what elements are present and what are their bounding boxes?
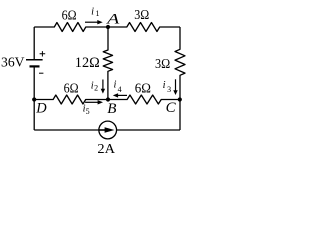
svg-text:i: i bbox=[114, 80, 117, 91]
svg-text:4: 4 bbox=[118, 85, 122, 94]
svg-text:5: 5 bbox=[86, 107, 90, 116]
svg-text:2: 2 bbox=[94, 84, 98, 93]
svg-text:2A: 2A bbox=[97, 142, 115, 157]
svg-text:6Ω: 6Ω bbox=[135, 82, 151, 97]
svg-text:A: A bbox=[106, 12, 121, 28]
svg-text:B: B bbox=[107, 101, 116, 117]
svg-text:6Ω: 6Ω bbox=[64, 81, 79, 96]
svg-text:i: i bbox=[163, 80, 166, 91]
svg-text:i: i bbox=[91, 6, 94, 17]
svg-text:36V: 36V bbox=[1, 55, 25, 70]
svg-text:6Ω: 6Ω bbox=[62, 9, 77, 24]
svg-text:3Ω: 3Ω bbox=[155, 57, 170, 72]
svg-text:3Ω: 3Ω bbox=[134, 8, 149, 23]
svg-text:C: C bbox=[166, 100, 177, 116]
svg-text:3: 3 bbox=[167, 85, 171, 94]
svg-text:1: 1 bbox=[96, 9, 100, 18]
svg-text:D: D bbox=[35, 101, 47, 117]
svg-text:12Ω: 12Ω bbox=[75, 55, 100, 71]
